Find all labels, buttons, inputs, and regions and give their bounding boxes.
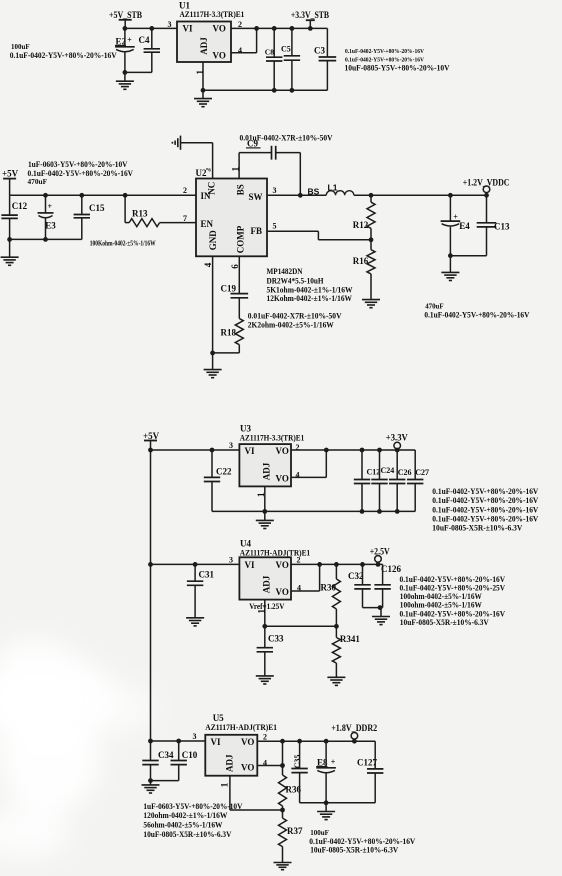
svg-text:+1.8V_DDR2: +1.8V_DDR2: [331, 723, 377, 733]
svg-text:+2.5V: +2.5V: [370, 547, 390, 557]
svg-text:0.1uF-0402-Y5V-+80%-20%-16V: 0.1uF-0402-Y5V-+80%-20%-16V: [432, 496, 538, 505]
svg-text:ADJ: ADJ: [199, 37, 209, 55]
svg-text:2: 2: [297, 556, 301, 565]
svg-text:1: 1: [257, 609, 267, 614]
svg-text:VO: VO: [276, 560, 289, 570]
svg-text:C34: C34: [158, 750, 174, 760]
svg-text:VO: VO: [276, 587, 289, 597]
svg-text:AZ1117H-3.3(TR)E1: AZ1117H-3.3(TR)E1: [240, 433, 304, 442]
svg-text:5K1ohm-0402-±1%-1/16W: 5K1ohm-0402-±1%-1/16W: [267, 285, 353, 294]
svg-text:R30: R30: [321, 582, 337, 592]
svg-text:1uF-0603-Y5V-+80%-20%-10V: 1uF-0603-Y5V-+80%-20%-10V: [143, 802, 242, 811]
svg-text:+5V: +5V: [2, 168, 19, 178]
svg-text:7: 7: [183, 214, 187, 223]
svg-text:0.1uF-0402-Y5V-+80%-20%-16V: 0.1uF-0402-Y5V-+80%-20%-16V: [10, 51, 117, 60]
svg-text:100uF: 100uF: [11, 42, 30, 51]
svg-text:SW: SW: [249, 192, 263, 202]
svg-text:1: 1: [196, 70, 206, 75]
svg-text:5: 5: [273, 221, 277, 230]
svg-text:VO: VO: [241, 762, 254, 772]
svg-text:R16: R16: [353, 256, 369, 266]
svg-text:3: 3: [168, 20, 172, 29]
svg-text:VO: VO: [213, 24, 226, 34]
svg-text:VO: VO: [276, 446, 289, 456]
svg-text:FB: FB: [251, 226, 263, 236]
svg-text:2: 2: [263, 733, 267, 742]
svg-text:+: +: [453, 212, 458, 221]
svg-text:E3: E3: [45, 220, 56, 230]
svg-text:U5: U5: [213, 713, 224, 723]
svg-text:C13: C13: [494, 221, 510, 231]
svg-text:BS: BS: [308, 187, 320, 197]
svg-text:C32: C32: [348, 571, 364, 581]
svg-text:4: 4: [238, 46, 242, 55]
svg-text:C22: C22: [216, 466, 232, 476]
svg-text:100uF: 100uF: [310, 828, 329, 837]
svg-text:0.01uF-0402-X7R-±10%-50V: 0.01uF-0402-X7R-±10%-50V: [248, 311, 342, 320]
svg-text:+1.2V_VDDC: +1.2V_VDDC: [463, 177, 510, 187]
svg-text:VI: VI: [245, 560, 255, 570]
svg-text:+: +: [48, 202, 53, 211]
svg-text:3: 3: [229, 441, 233, 450]
svg-text:100Kohm-0402-±5%-1/16W: 100Kohm-0402-±5%-1/16W: [90, 238, 156, 247]
svg-text:ADJ: ADJ: [262, 575, 272, 593]
svg-text:0.01uF-0402-X7R-±10%-50V: 0.01uF-0402-X7R-±10%-50V: [240, 133, 333, 142]
svg-text:2K2ohm-0402-±5%-1/16W: 2K2ohm-0402-±5%-1/16W: [248, 320, 334, 329]
svg-text:*6: *6: [206, 169, 212, 174]
svg-text:R341: R341: [340, 634, 360, 644]
svg-text:COMP: COMP: [235, 225, 245, 253]
svg-text:BS: BS: [235, 184, 245, 195]
svg-text:ADJ: ADJ: [262, 462, 272, 480]
svg-text:AZ1117H-ADJ(TR)E1: AZ1117H-ADJ(TR)E1: [205, 723, 277, 732]
svg-text:56ohm-0402-±5%-1/16W: 56ohm-0402-±5%-1/16W: [143, 820, 222, 829]
svg-text:C4: C4: [139, 35, 150, 45]
svg-text:0.1uF-0402-Y5V-+80%-20%-16V: 0.1uF-0402-Y5V-+80%-20%-16V: [424, 310, 529, 319]
svg-text:100ohm-0402-±5%-1/16W: 100ohm-0402-±5%-1/16W: [400, 600, 482, 609]
svg-text:12Kohm-0402-±1%-1/16W: 12Kohm-0402-±1%-1/16W: [267, 294, 353, 303]
svg-text:NC: NC: [206, 182, 216, 195]
svg-text:3: 3: [229, 556, 233, 565]
svg-text:E4: E4: [459, 221, 470, 231]
svg-text:3: 3: [273, 186, 277, 195]
svg-text:C5: C5: [281, 44, 291, 53]
svg-text:VO: VO: [213, 51, 226, 61]
svg-text:C27: C27: [415, 468, 429, 477]
svg-text:10uF-0805-X5R-±10%-6.3V: 10uF-0805-X5R-±10%-6.3V: [310, 846, 398, 855]
svg-text:0.1uF-0402-Y5V-+80%-20%-16V: 0.1uF-0402-Y5V-+80%-20%-16V: [345, 49, 425, 55]
svg-text:VO: VO: [241, 737, 254, 747]
svg-text:+5V: +5V: [143, 431, 160, 441]
svg-text:+: +: [127, 36, 132, 45]
svg-text:R37: R37: [287, 826, 303, 836]
svg-text:VO: VO: [276, 473, 289, 483]
svg-text:470uF: 470uF: [28, 177, 48, 186]
svg-text:1: 1: [220, 782, 230, 787]
svg-text:1uF-0603-Y5V-+80%-20%-10V: 1uF-0603-Y5V-+80%-20%-10V: [28, 160, 128, 169]
svg-text:+3.3V: +3.3V: [386, 432, 408, 442]
svg-text:EN: EN: [201, 219, 214, 229]
svg-text:U1: U1: [179, 1, 190, 11]
svg-text:U3: U3: [240, 423, 251, 433]
svg-text:+: +: [331, 757, 336, 766]
svg-text:10uF-0805-X5R-±10%-6.3V: 10uF-0805-X5R-±10%-6.3V: [143, 830, 231, 839]
svg-text:MP1482DN: MP1482DN: [267, 267, 303, 276]
svg-text:C12: C12: [12, 201, 28, 211]
svg-text:3: 3: [193, 732, 197, 741]
svg-text:0.1uF-0402-Y5V-+80%-20%-16V: 0.1uF-0402-Y5V-+80%-20%-16V: [432, 487, 538, 496]
svg-text:DR2W4*5.5-10uH: DR2W4*5.5-10uH: [267, 276, 325, 285]
svg-text:0.1uF-0402-Y5V-+80%-20%-16V: 0.1uF-0402-Y5V-+80%-20%-16V: [432, 515, 538, 524]
svg-text:ADJ: ADJ: [225, 754, 235, 772]
svg-text:C12: C12: [367, 468, 381, 477]
svg-text:10uF-0805-X5R-±10%-6.3V: 10uF-0805-X5R-±10%-6.3V: [400, 618, 489, 627]
svg-text:R13: R13: [132, 208, 148, 218]
svg-text:U4: U4: [240, 538, 251, 548]
svg-text:470uF: 470uF: [425, 302, 444, 311]
svg-text:10uF-0805-Y5V-+80%-20%-10V: 10uF-0805-Y5V-+80%-20%-10V: [345, 63, 450, 72]
svg-text:GND: GND: [208, 230, 218, 251]
svg-text:10uF-0805-X5R-±10%-6.3V: 10uF-0805-X5R-±10%-6.3V: [432, 524, 522, 533]
svg-text:C33: C33: [268, 633, 284, 643]
svg-text:120ohm-0402-±1%-1/16W: 120ohm-0402-±1%-1/16W: [143, 811, 227, 820]
svg-text:0.1uF-0402-Y5V-+80%-20%-16V: 0.1uF-0402-Y5V-+80%-20%-16V: [432, 505, 538, 514]
svg-text:C127: C127: [357, 758, 377, 768]
svg-text:VI: VI: [211, 737, 221, 747]
svg-text:R18: R18: [221, 328, 237, 338]
svg-text:C15: C15: [89, 203, 105, 213]
svg-text:C126: C126: [381, 564, 401, 574]
svg-text:R12: R12: [353, 220, 369, 230]
svg-text:4: 4: [203, 262, 213, 267]
svg-text:C10: C10: [182, 750, 198, 760]
svg-text:C31: C31: [199, 570, 215, 580]
svg-text:C3: C3: [314, 46, 325, 56]
svg-text:1: 1: [257, 492, 267, 497]
svg-text:C24: C24: [381, 466, 395, 475]
svg-text:C35: C35: [293, 755, 302, 769]
svg-text:+5V_STB: +5V_STB: [109, 10, 142, 20]
svg-text:0.1uF-0402-Y5V-+80%-20%-16V: 0.1uF-0402-Y5V-+80%-20%-16V: [309, 837, 415, 846]
svg-text:VI: VI: [183, 24, 193, 34]
svg-text:C26: C26: [398, 468, 412, 477]
svg-text:+3.3V_STB: +3.3V_STB: [291, 10, 329, 20]
svg-text:C8: C8: [265, 47, 274, 56]
svg-text:AZ1117H-3.3(TR)E1: AZ1117H-3.3(TR)E1: [180, 10, 245, 19]
svg-text:1: 1: [231, 166, 241, 171]
svg-text:C19: C19: [221, 283, 237, 293]
svg-text:2: 2: [183, 186, 187, 195]
svg-text:VI: VI: [245, 446, 255, 456]
